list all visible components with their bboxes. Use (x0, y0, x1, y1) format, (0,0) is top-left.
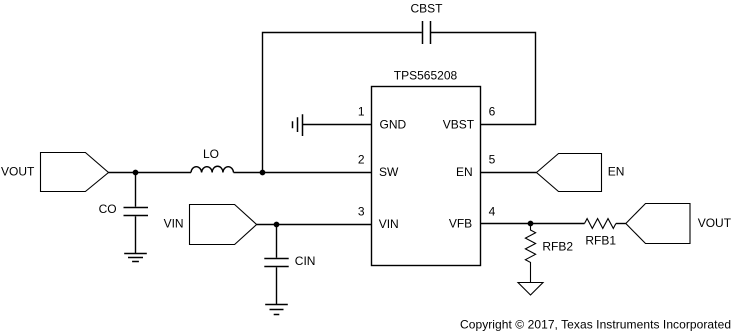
svg-text:LO: LO (203, 147, 219, 161)
svg-text:EN: EN (608, 165, 625, 179)
svg-text:6: 6 (489, 105, 496, 119)
svg-text:RFB2: RFB2 (542, 239, 573, 253)
svg-text:EN: EN (456, 165, 473, 179)
svg-text:VFB: VFB (449, 217, 472, 231)
svg-text:RFB1: RFB1 (585, 234, 616, 248)
svg-text:CO: CO (99, 202, 117, 216)
svg-text:TPS565208: TPS565208 (394, 69, 458, 83)
svg-text:1: 1 (358, 105, 365, 119)
svg-text:Copyright © 2017, Texas Instru: Copyright © 2017, Texas Instruments Inco… (460, 318, 731, 332)
svg-text:GND: GND (380, 117, 407, 131)
svg-text:4: 4 (489, 205, 496, 219)
svg-text:VIN: VIN (164, 217, 184, 231)
svg-text:VBST: VBST (443, 117, 475, 131)
svg-text:VIN: VIN (379, 217, 399, 231)
svg-text:2: 2 (358, 153, 365, 167)
svg-text:SW: SW (379, 165, 399, 179)
svg-text:5: 5 (489, 153, 496, 167)
svg-text:3: 3 (358, 205, 365, 219)
svg-text:VOUT: VOUT (1, 165, 35, 179)
svg-text:CBST: CBST (410, 2, 443, 16)
svg-text:VOUT: VOUT (698, 216, 732, 230)
svg-text:CIN: CIN (295, 254, 316, 268)
